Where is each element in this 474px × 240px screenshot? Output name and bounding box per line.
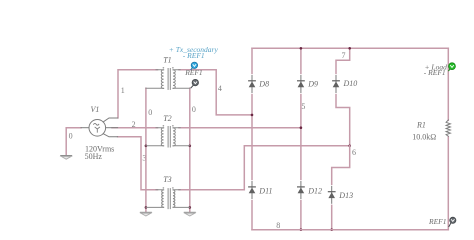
- wire top bus node7: [252, 47, 448, 49]
- wire net6 T3 sec top to D10/D13 column: [179, 146, 350, 190]
- svg-text:0: 0: [192, 105, 196, 114]
- wire bottom bus node8: [252, 229, 448, 231]
- svg-text:1: 1: [121, 86, 125, 95]
- V1 three-phase wye source: [81, 118, 118, 137]
- wire net4 T1 sec top to D8 column: [179, 70, 252, 115]
- svg-text:D8: D8: [258, 80, 269, 89]
- probe REF1 gray: [191, 79, 199, 87]
- svg-text:T3: T3: [163, 175, 171, 184]
- wire D9 D12 column: [300, 48, 302, 229]
- svg-text:D10: D10: [343, 79, 358, 88]
- junction node5 tap: [300, 126, 303, 129]
- svg-text:- REF1: - REF1: [424, 68, 446, 77]
- svg-text:- REF1: - REF1: [183, 51, 205, 60]
- svg-text:R1: R1: [416, 120, 426, 129]
- svg-text:7: 7: [342, 51, 346, 60]
- diode D11: [249, 182, 256, 199]
- wire D8 D11 column: [251, 48, 253, 229]
- svg-text:D9: D9: [307, 80, 318, 89]
- svg-text:8: 8: [276, 221, 280, 230]
- wire net0 secondary: T1 sec bottom down to ground: [189, 88, 191, 212]
- transformer T2: [146, 127, 190, 148]
- svg-text:0: 0: [148, 108, 152, 117]
- svg-text:10.0kΩ: 10.0kΩ: [412, 133, 436, 142]
- diode D13: [328, 186, 335, 203]
- probe Tx_secondary blue: [191, 62, 198, 69]
- diode D12: [298, 182, 305, 199]
- ground primary secondary-bank: [140, 212, 151, 216]
- wire V1 left to ground: [66, 128, 81, 155]
- diode D10: [333, 76, 340, 93]
- junction D12 bottom: [300, 228, 303, 231]
- wire net3 V1 to T3 primary top: [118, 137, 158, 190]
- junction T2 prim bottom: [145, 145, 148, 148]
- T1 polarity dots: [163, 67, 165, 69]
- svg-text:V1: V1: [91, 105, 100, 114]
- svg-text:D11: D11: [258, 186, 272, 195]
- svg-text:5: 5: [301, 102, 305, 111]
- svg-text:50Hz: 50Hz: [85, 152, 103, 161]
- probe REF1 bottom right: [449, 217, 456, 226]
- junction D13 bottom: [330, 228, 333, 231]
- T2 polarity dots: [163, 125, 165, 127]
- probe Load green: [449, 63, 456, 71]
- diode D9: [298, 76, 305, 93]
- svg-text:REF1: REF1: [428, 217, 447, 226]
- resistor R1: [446, 120, 450, 136]
- junction D9 top: [300, 47, 303, 50]
- wire D10 jog: [336, 48, 350, 146]
- wire D13 jog: [332, 146, 350, 230]
- diode D8: [249, 76, 256, 93]
- svg-text:D13: D13: [338, 191, 353, 200]
- transformer T3: [146, 189, 190, 209]
- wire net5 T2 sec top to D9 column: [179, 127, 301, 129]
- wire load right side: [447, 48, 449, 120]
- T3 polarity dots: [163, 187, 165, 189]
- svg-text:6: 6: [352, 148, 356, 157]
- svg-text:T2: T2: [163, 114, 171, 123]
- svg-text:2: 2: [132, 120, 136, 129]
- wire net1 V1 to T1 primary top: [118, 70, 158, 118]
- junction D10 top: [348, 47, 351, 50]
- svg-text:4: 4: [218, 84, 222, 93]
- junction T3 prim bottom: [145, 206, 148, 209]
- junction T3 sec bottom: [189, 206, 192, 209]
- junction node6 tap: [348, 145, 351, 148]
- svg-text:D12: D12: [307, 186, 322, 195]
- svg-text:T1: T1: [163, 56, 171, 65]
- svg-text:0: 0: [69, 131, 73, 140]
- svg-text:REF1: REF1: [184, 68, 203, 77]
- junction T2 sec bottom: [189, 145, 192, 148]
- junction node4 tap: [251, 114, 254, 117]
- wire net2 V1 to T2 primary top: [112, 127, 158, 129]
- wire net0 primary side: T1 prim bottom down to ground: [145, 88, 147, 212]
- wire load right side lower: [447, 137, 449, 230]
- transformer T1: [146, 69, 190, 90]
- ground secondary: [184, 212, 195, 216]
- ground left: [61, 156, 72, 160]
